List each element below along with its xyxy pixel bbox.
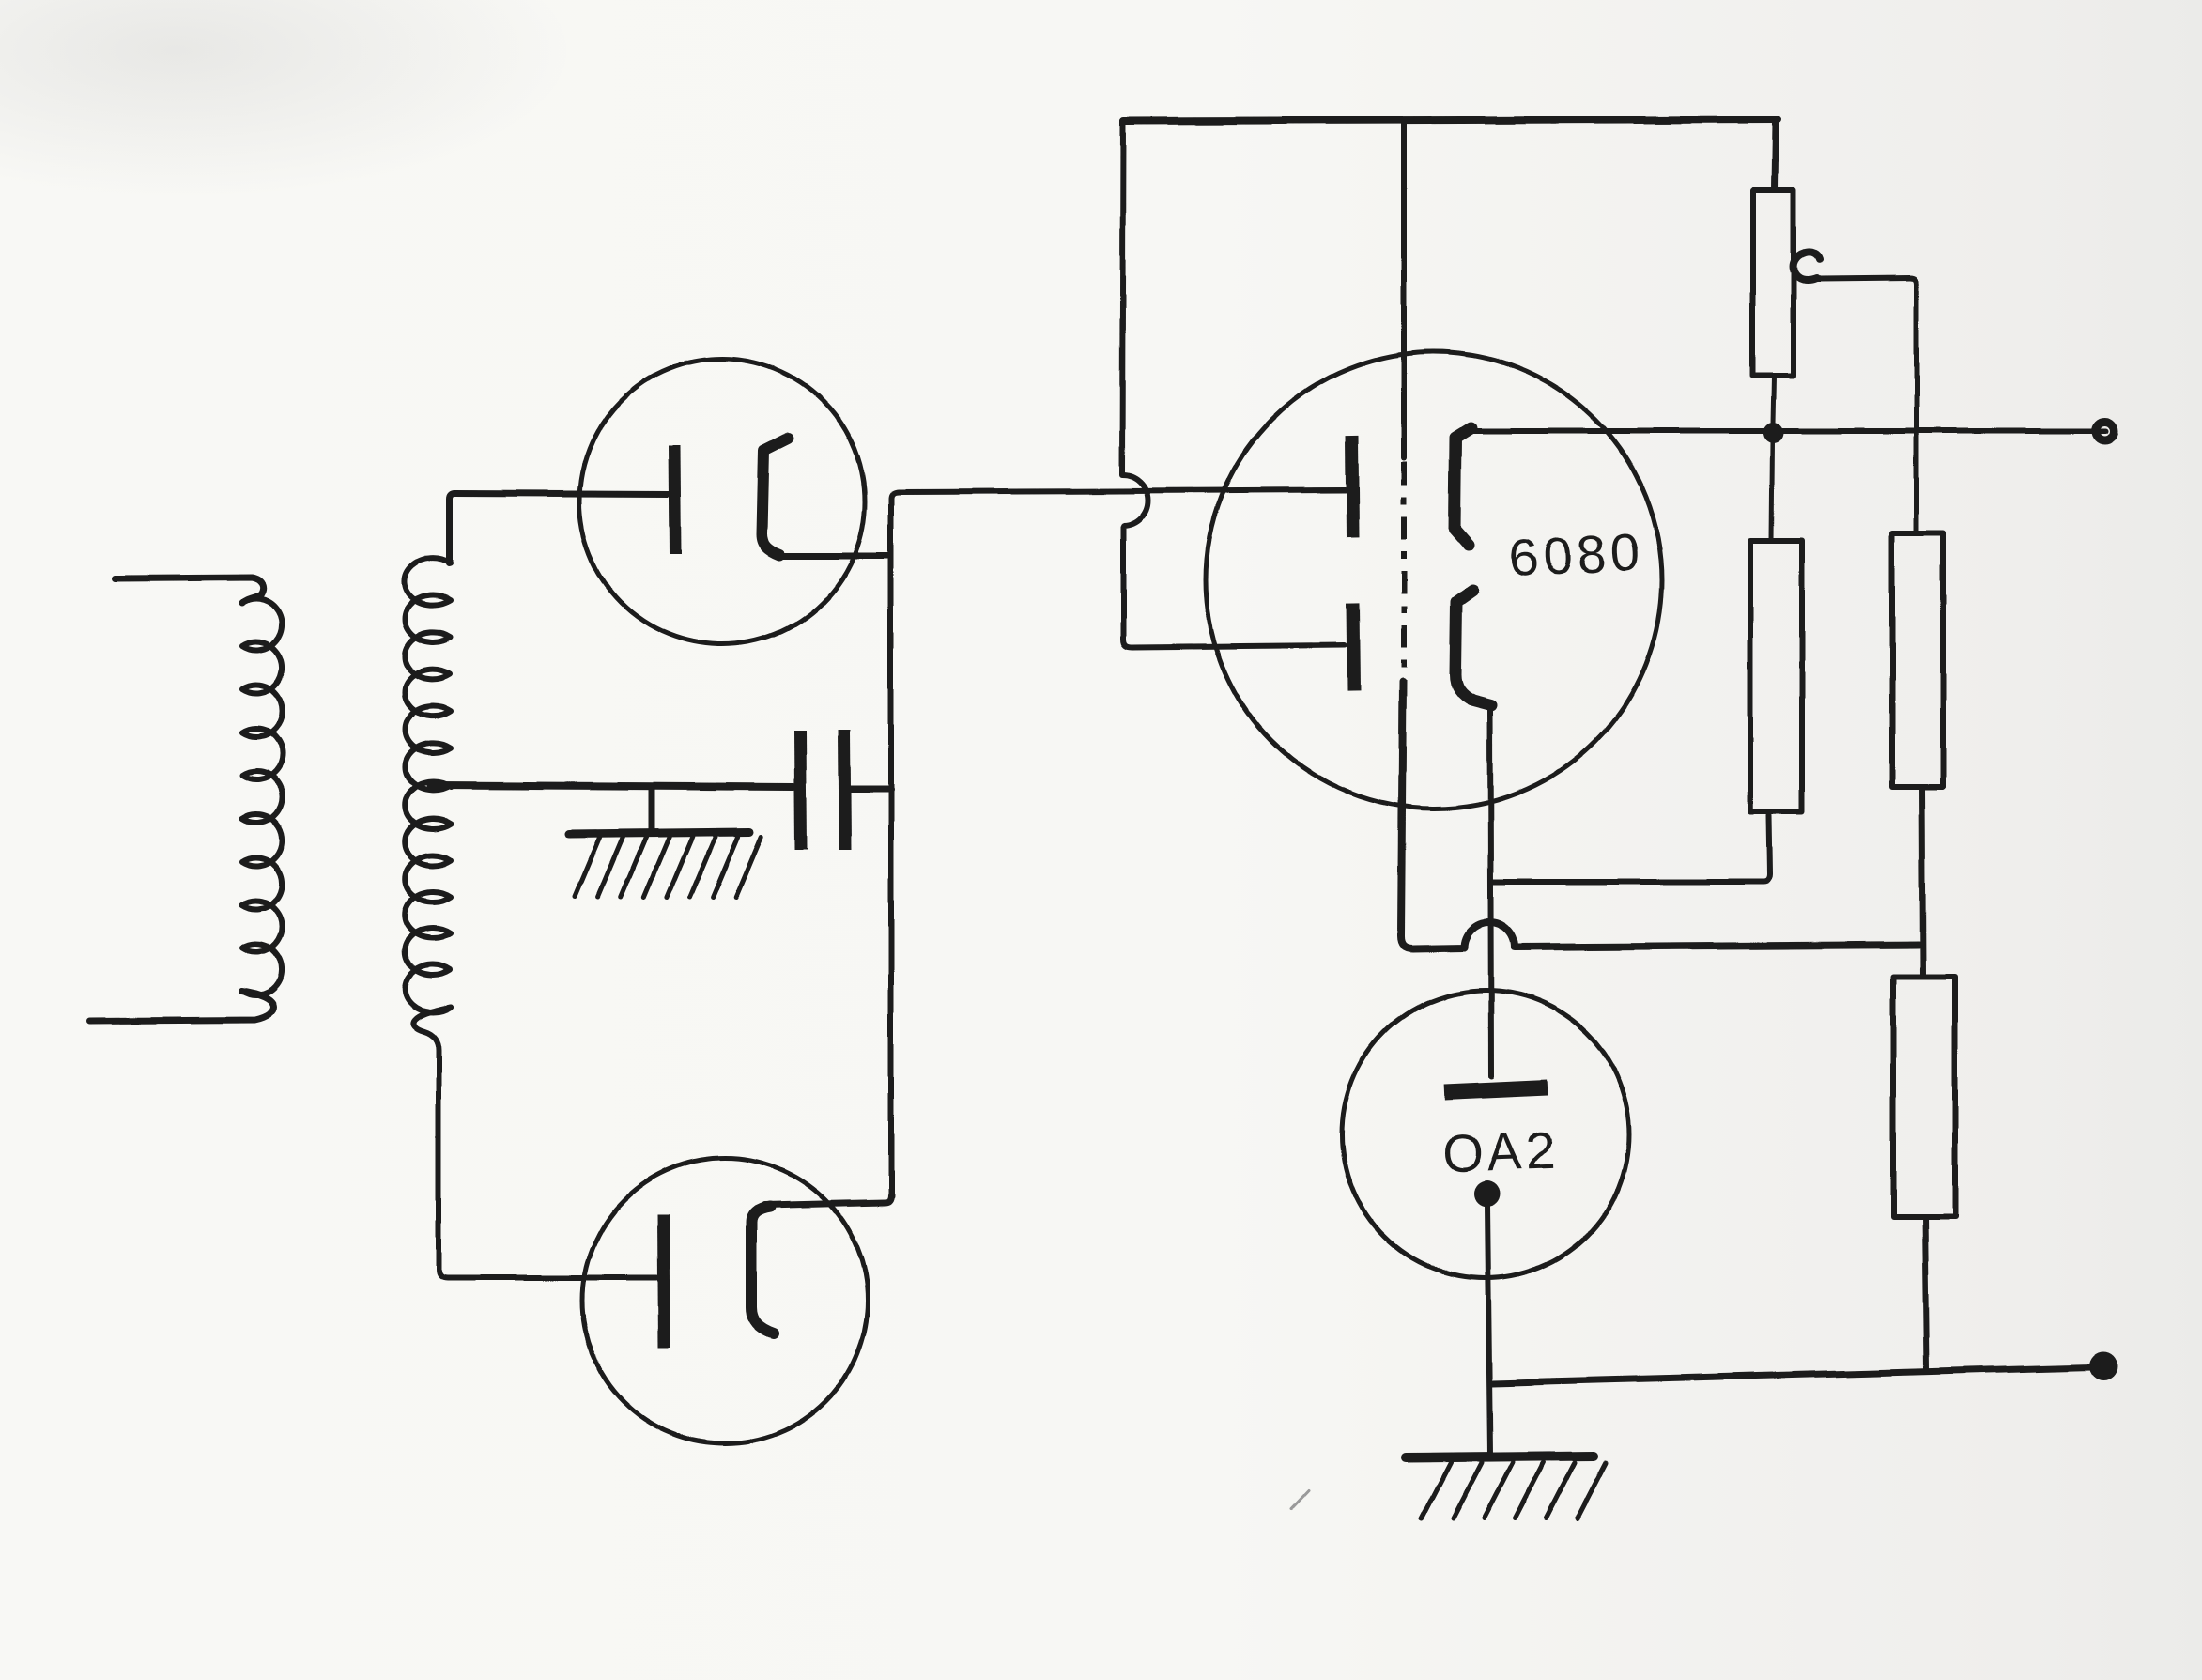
wire top rail to R1 xyxy=(1775,121,1776,191)
inductor L1 (input winding) xyxy=(242,598,283,995)
capacitor C1 xyxy=(800,731,845,850)
output terminal 1 xyxy=(2096,422,2115,440)
tube V1 anode xyxy=(762,438,788,555)
wire R3 bottom to R4 top xyxy=(1922,787,1923,977)
wire R4 bottom to bottom rail xyxy=(1925,1216,1927,1369)
resistor R2 xyxy=(1750,541,1802,811)
tube V1 cathode xyxy=(674,445,675,555)
label OA2 xyxy=(1441,1120,1560,1183)
wire L2 top lead to V1 cathode xyxy=(450,493,669,563)
label 6080 xyxy=(1507,522,1646,588)
wire L1 bottom lead xyxy=(90,992,273,1021)
wire grid 2 to OA2 anode xyxy=(1490,706,1491,1076)
resistor R3 xyxy=(1892,533,1943,787)
wire V1 anode lead xyxy=(779,553,889,560)
tube V2 envelope xyxy=(582,1158,868,1443)
resistor R4 xyxy=(1893,977,1955,1216)
tube U1 6080 envelope xyxy=(1206,352,1662,809)
R1 wiper arm xyxy=(1794,252,1917,532)
tube V3 anode bar xyxy=(1444,1087,1548,1092)
tube V2 cathode xyxy=(664,1215,665,1348)
tube U1 common plate line (dashed) xyxy=(1401,462,1407,682)
wire junction to R2 xyxy=(1771,441,1772,541)
svg-text:6080: 6080 xyxy=(1507,522,1646,588)
tube U1 plate 1 xyxy=(1351,436,1352,537)
wire OA2 cathode to ground xyxy=(1487,1205,1490,1455)
wire node A to 6080 upper plate xyxy=(891,490,1345,499)
tube V3 cathode dot xyxy=(1474,1180,1501,1207)
wire top rail down to 6080 lower plate (hop over grid wire) xyxy=(1122,121,1345,647)
tube V2 anode xyxy=(751,1207,774,1333)
wire V2 anode lead to node A xyxy=(764,1194,891,1205)
wire bottom rail to output terminal 2 xyxy=(1492,1367,2092,1383)
wire node A vertical (V1/V2 anodes and C1) xyxy=(888,499,894,1195)
transformer winding L2 lower half xyxy=(405,782,451,1012)
transformer winding L2 upper half xyxy=(405,559,451,791)
output terminal 2 xyxy=(2089,1352,2117,1380)
tube U1 grid 2 xyxy=(1455,592,1491,705)
stray pencil mark xyxy=(1292,1491,1309,1509)
svg-text:OA2: OA2 xyxy=(1441,1120,1560,1183)
wire R1 bottom to junction xyxy=(1773,376,1774,424)
ground symbol (main) xyxy=(1405,1456,1606,1518)
tube U1 common plate line (solid upper) xyxy=(1401,121,1407,458)
tube U1 grid 1 xyxy=(1455,428,1471,546)
tube U1 plate 2 xyxy=(1353,603,1354,691)
wire U1 plates to divider (with hop) xyxy=(1401,682,1919,948)
tube V3 OA2 envelope xyxy=(1342,991,1629,1278)
wire L1 top lead xyxy=(115,578,263,603)
junction dot (R1/R2/output) xyxy=(1763,423,1783,443)
wire grid 2 node to R2 xyxy=(1493,815,1770,882)
wire top rail xyxy=(1124,119,1778,121)
ground symbol (centre tap) xyxy=(569,832,762,897)
resistor R1 (potentiometer body) xyxy=(1753,191,1794,376)
wire L2 bottom lead xyxy=(413,1007,657,1278)
wire C1 right plate to node A xyxy=(851,786,891,793)
wire L2 centre tap to capacitor C1 xyxy=(430,785,793,787)
wire grid 1 to output node xyxy=(1461,428,2106,434)
wire ground stub xyxy=(648,787,654,830)
tube V1 envelope xyxy=(579,359,865,644)
